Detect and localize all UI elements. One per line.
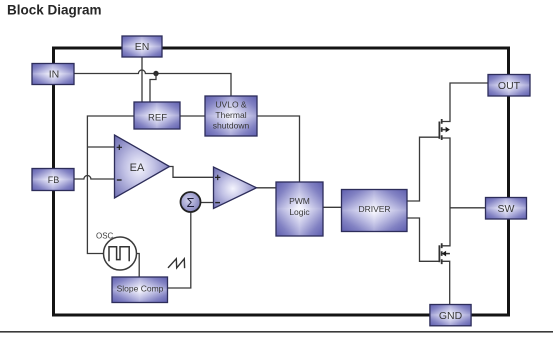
svg-text:FB: FB — [48, 175, 60, 185]
wire OSC to Slope Comp — [137, 254, 140, 278]
wire REF left down to EA+ and OSC — [87, 116, 134, 254]
wire EN down to REF — [141, 57, 143, 102]
transistor M1 high-side NMOS — [439, 119, 450, 140]
wire SW node to SW pin — [450, 207, 486, 209]
svg-text:OSC: OSC — [96, 232, 114, 241]
block UVLO and thermal shutdown — [205, 96, 257, 136]
pin block IN — [32, 64, 74, 85]
block Slope Comp — [112, 277, 168, 303]
block PWM Logic — [276, 182, 323, 236]
svg-text:Σ: Σ — [186, 195, 194, 210]
summing node sigma — [181, 192, 201, 212]
wire tee to EA plus input — [87, 146, 114, 148]
pin block GND — [430, 305, 471, 326]
block REF — [134, 102, 180, 129]
wire OUT to M1 drain — [442, 83, 488, 122]
op-amp PWM comparator — [214, 167, 257, 209]
wire IN to UVLO with hop over EN wire — [74, 70, 231, 96]
svg-text:Logic: Logic — [289, 207, 310, 217]
wire M1 source to SW node to M2 drain — [442, 138, 450, 246]
svg-text:GND: GND — [439, 310, 463, 322]
svg-text:OUT: OUT — [498, 80, 521, 92]
wire DRIVER to M1 gate — [407, 137, 439, 201]
pin block EN — [122, 36, 162, 57]
wire EA output to comparator plus — [169, 167, 214, 178]
pin block FB — [32, 169, 74, 191]
svg-text:shutdown: shutdown — [213, 120, 250, 130]
sawtooth slope signal — [168, 259, 185, 269]
svg-text:UVLO &: UVLO & — [215, 100, 247, 110]
svg-text:PWM: PWM — [289, 196, 310, 206]
svg-text:REF: REF — [148, 113, 167, 124]
svg-text:Block Diagram: Block Diagram — [7, 3, 102, 18]
svg-text:SW: SW — [498, 203, 515, 215]
wire sigma to comparator minus — [201, 202, 214, 204]
transistor M2 low-side NMOS — [439, 243, 450, 264]
wire FB to EA minus with hop — [74, 176, 115, 179]
op-amp EA error amplifier — [115, 135, 170, 198]
svg-text:EN: EN — [135, 41, 150, 53]
wire comparator to PWM — [257, 187, 277, 189]
pin block OUT — [488, 75, 530, 97]
wire UVLO to PWM top — [257, 116, 300, 182]
wire PWM to DRIVER — [323, 206, 342, 208]
svg-text:EA: EA — [130, 162, 145, 174]
wire junction branch to REF — [150, 74, 156, 103]
oscillator OSC — [96, 232, 137, 271]
svg-text:Thermal: Thermal — [215, 110, 246, 120]
wire DRIVER to M2 gate — [407, 218, 439, 261]
svg-text:IN: IN — [49, 69, 60, 81]
IC boundary box — [54, 48, 509, 315]
block DRIVER — [342, 190, 408, 232]
wire REF to UVLO — [180, 115, 205, 117]
svg-text:DRIVER: DRIVER — [358, 204, 390, 214]
bottom rule — [0, 331, 553, 333]
node junction dot — [153, 71, 158, 76]
wire M2 source to GND — [442, 261, 450, 304]
svg-text:Slope Comp: Slope Comp — [117, 284, 164, 294]
wire Slope Comp to sigma — [168, 212, 191, 288]
pin block SW — [486, 198, 527, 220]
